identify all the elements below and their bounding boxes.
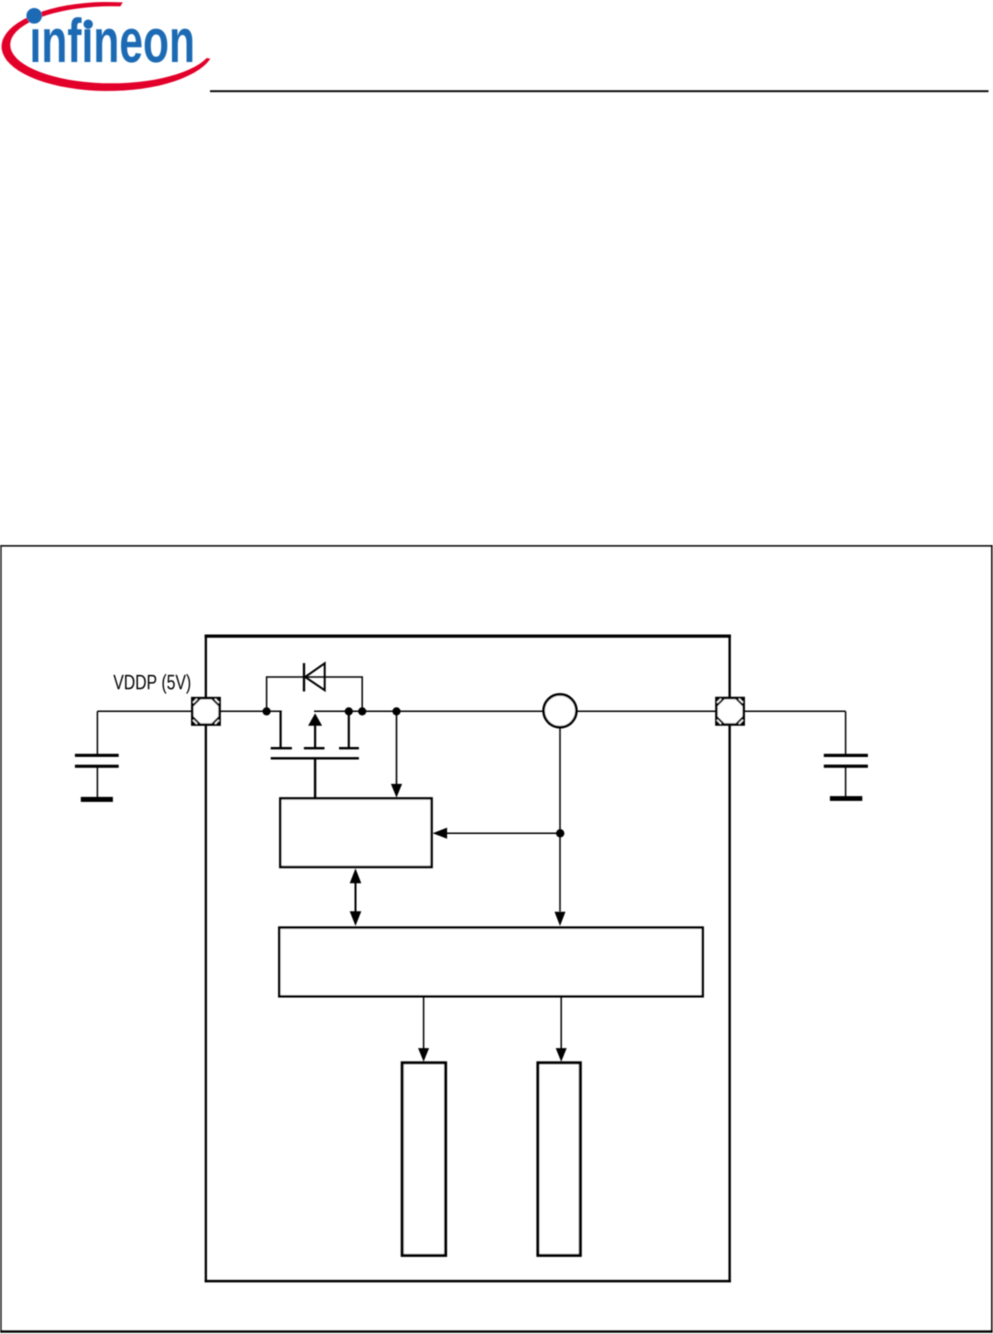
wire: arrow from rail to charge pump box bbox=[391, 711, 402, 797]
ground (left) bbox=[81, 797, 113, 802]
node: junction dot diode right bbox=[358, 707, 366, 715]
logo small i-dot bbox=[84, 20, 93, 29]
charge pump box U1 bbox=[280, 798, 431, 867]
wire: left cap bottom lead bbox=[96, 767, 98, 799]
wire: left cap top lead bbox=[96, 711, 98, 754]
driver box B bbox=[538, 1063, 580, 1256]
logic box U2 bbox=[279, 928, 702, 997]
header rule bbox=[210, 90, 989, 92]
Infineon logo bbox=[2, 2, 211, 91]
logo large i-dot bbox=[26, 8, 42, 24]
diode D1 bbox=[304, 663, 325, 691]
wire: arrow from logic to right driver bbox=[556, 997, 567, 1062]
wire: main VDDP rail (left segment) bbox=[97, 710, 281, 712]
wire: stem from current source circle down to logic box bbox=[555, 728, 566, 927]
capacitor C2 plates bbox=[824, 754, 868, 768]
pad: VDDP pin (left) bbox=[192, 698, 219, 725]
driver box A bbox=[402, 1063, 445, 1256]
node: junction dot charge pump feed bbox=[392, 707, 400, 715]
wire: arrow into charge pump right side bbox=[433, 828, 560, 839]
wire: right cap top lead bbox=[845, 711, 847, 754]
node: junction dot sense branch bbox=[556, 829, 564, 837]
label VDDP (5V) bbox=[113, 674, 190, 694]
node: junction dot mosfet right bbox=[345, 707, 353, 715]
logo red swoosh bbox=[2, 2, 211, 91]
figure frame bbox=[0, 545, 992, 1333]
wire: arrow from logic to left driver bbox=[418, 997, 429, 1062]
current source circle bbox=[544, 694, 577, 727]
wire: main VDDP rail (right segment) bbox=[314, 710, 846, 712]
logo wordmark "infineon" bbox=[33, 17, 193, 63]
pad: output pin (right) bbox=[716, 698, 743, 725]
capacitor C1 plates bbox=[75, 754, 119, 768]
node: junction dot diode left bbox=[263, 707, 271, 715]
wire: right cap bottom lead bbox=[845, 767, 847, 798]
wire: diode loop bbox=[267, 677, 363, 711]
transistor Q1 (MOSFET) bbox=[271, 711, 359, 800]
ground (right) bbox=[830, 796, 862, 801]
IC boundary box bbox=[205, 635, 731, 1283]
wire: double arrow between charge pump and logic bbox=[350, 868, 362, 926]
